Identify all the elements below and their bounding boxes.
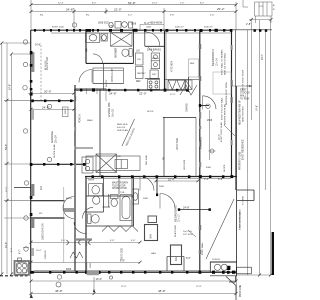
- svg-text:2668: 2668: [143, 198, 149, 200]
- svg-text:FAU: FAU: [175, 256, 178, 261]
- svg-text:6'-8": 6'-8": [110, 240, 115, 242]
- svg-text:WASH: WASH: [152, 57, 159, 60]
- svg-text:16 x 20: 16 x 20: [112, 108, 115, 117]
- svg-text:ENTRY: ENTRY: [106, 79, 108, 87]
- svg-text:MSTR CLST: MSTR CLST: [111, 68, 114, 82]
- svg-text:DRY: DRY: [152, 74, 157, 76]
- svg-text:W.H.: W.H.: [151, 233, 153, 238]
- svg-text:2x6 CLG: 2x6 CLG: [183, 231, 192, 233]
- svg-text:24'-8": 24'-8": [9, 84, 12, 90]
- svg-text:5068 BIPASS: 5068 BIPASS: [147, 49, 161, 52]
- svg-text:8'-2": 8'-2": [200, 3, 205, 5]
- svg-text:22'-0": 22'-0": [114, 7, 122, 11]
- svg-text:12'-0": 12'-0": [6, 186, 8, 192]
- svg-text:2668: 2668: [159, 186, 165, 188]
- svg-text:12 x 13: 12 x 13: [179, 214, 181, 222]
- svg-text:DINING: DINING: [186, 103, 189, 112]
- svg-text:NEW HDR: NEW HDR: [117, 124, 128, 126]
- svg-text:16'-0": 16'-0": [36, 250, 42, 252]
- svg-text:LIVING RM: LIVING RM: [107, 102, 111, 117]
- svg-text:20 x 24: 20 x 24: [55, 134, 58, 143]
- svg-text:EXIST STUCCO WALL: EXIST STUCCO WALL: [221, 97, 224, 120]
- svg-text:PLATFORM: PLATFORM: [174, 225, 177, 237]
- svg-text:3068 SGD: 3068 SGD: [98, 23, 109, 25]
- svg-text:8'-0": 8'-0": [92, 3, 97, 5]
- svg-text:12 x 14: 12 x 14: [217, 58, 219, 66]
- svg-text:SLOPE: SLOPE: [224, 164, 226, 172]
- svg-text:16070: 16070: [65, 108, 67, 115]
- svg-text:22'-0": 22'-0": [121, 286, 127, 288]
- svg-text:WALK: WALK: [87, 119, 94, 122]
- svg-text:BATH: BATH: [66, 197, 72, 200]
- svg-text:EQ: EQ: [86, 15, 89, 17]
- svg-text:PANTRY: PANTRY: [137, 72, 146, 75]
- svg-text:16070 GAR DR: 16070 GAR DR: [42, 223, 45, 240]
- svg-text:9'-0": 9'-0": [61, 240, 66, 242]
- svg-text:12'-4": 12'-4": [58, 3, 64, 5]
- svg-text:NEW CONC WALK: NEW CONC WALK: [239, 209, 242, 228]
- svg-text:KITCHEN: KITCHEN: [171, 61, 174, 72]
- svg-text:SLOPE SLAB: SLOPE SLAB: [53, 144, 56, 158]
- svg-text:54'-8": 54'-8": [128, 1, 136, 5]
- svg-text:12'-8": 12'-8": [196, 286, 202, 288]
- svg-text:PROPERTY LINE: PROPERTY LINE: [240, 151, 242, 170]
- svg-text:HALL: HALL: [151, 252, 157, 255]
- svg-text:7'-0": 7'-0": [180, 3, 185, 5]
- svg-text:24'-8": 24'-8": [183, 205, 190, 209]
- svg-text:STUCCO: STUCCO: [240, 93, 250, 95]
- svg-text:REF: REF: [136, 81, 141, 83]
- svg-text:LINE OF EXIST ROOF: LINE OF EXIST ROOF: [243, 69, 245, 92]
- svg-text:GARAGE: GARAGE: [50, 131, 54, 143]
- svg-text:EQ: EQ: [40, 15, 43, 17]
- svg-text:WALL: WALL: [240, 95, 247, 98]
- svg-text:48'-8": 48'-8": [55, 289, 63, 293]
- svg-text:SGD 8068: SGD 8068: [184, 159, 186, 170]
- svg-text:EXIST WALL: EXIST WALL: [201, 241, 204, 255]
- svg-text:PROP LINE: PROP LINE: [240, 284, 242, 297]
- svg-text:4'-0": 4'-0": [11, 247, 13, 252]
- svg-text:BEDROOM 2: BEDROOM 2: [174, 205, 178, 222]
- svg-text:REMOVE EXIST WDW: REMOVE EXIST WDW: [226, 81, 228, 105]
- svg-text:2668: 2668: [207, 120, 213, 122]
- svg-text:1668: 1668: [146, 27, 152, 29]
- svg-text:24'-8": 24'-8": [109, 92, 117, 96]
- svg-text:NEW ADDITION 496 SF: NEW ADDITION 496 SF: [239, 100, 242, 125]
- svg-text:TILE FLOOR: TILE FLOOR: [112, 185, 126, 187]
- svg-text:PORCH: PORCH: [79, 114, 82, 123]
- svg-text:SHOWER: SHOWER: [116, 47, 118, 58]
- svg-text:REMOVE PER PLAN: REMOVE PER PLAN: [224, 104, 227, 125]
- svg-text:5040 XO: 5040 XO: [204, 27, 213, 29]
- svg-text:24'-8": 24'-8": [42, 106, 50, 110]
- svg-text:16070 SGD: 16070 SGD: [122, 248, 124, 260]
- svg-text:3068 DR: 3068 DR: [45, 250, 47, 259]
- svg-text:16'-0": 16'-0": [96, 277, 103, 281]
- svg-text:PORCH: PORCH: [212, 259, 220, 261]
- svg-text:24'-8": 24'-8": [66, 7, 74, 11]
- svg-text:SHWR O/TUB: SHWR O/TUB: [112, 188, 127, 190]
- svg-text:9'-8": 9'-8": [170, 15, 175, 17]
- svg-text:4'-0": 4'-0": [204, 178, 209, 181]
- svg-text:12'-0": 12'-0": [170, 94, 176, 96]
- svg-text:5'-0" MIN: 5'-0" MIN: [243, 196, 245, 205]
- svg-text:14'-2": 14'-2": [152, 3, 158, 5]
- svg-text:8'-0": 8'-0": [186, 257, 191, 260]
- svg-text:22'-0": 22'-0": [139, 92, 147, 96]
- svg-text:NEW 2x4 STUD WALL: NEW 2x4 STUD WALL: [224, 52, 227, 75]
- svg-text:4'-0": 4'-0": [131, 240, 136, 242]
- svg-text:24'-8": 24'-8": [35, 45, 41, 47]
- svg-text:JST 16OC: JST 16OC: [183, 234, 194, 236]
- svg-text:2068: 2068: [109, 26, 115, 28]
- svg-text:16070 SGD: 16070 SGD: [177, 138, 179, 150]
- svg-text:5068: 5068: [90, 262, 92, 268]
- svg-text:4'-0": 4'-0": [20, 249, 22, 254]
- svg-text:5068: 5068: [66, 269, 72, 271]
- svg-text:BEDROOM 3: BEDROOM 3: [211, 49, 215, 66]
- svg-text:50'-0": 50'-0": [5, 144, 8, 150]
- svg-text:10'-4": 10'-4": [168, 177, 175, 181]
- svg-text:2'-8": 2'-8": [246, 22, 251, 26]
- svg-text:REF: REF: [190, 63, 195, 65]
- svg-text:MSTR: MSTR: [88, 180, 95, 182]
- svg-text:EXIST 4040: EXIST 4040: [52, 27, 65, 29]
- svg-text:4040 XO: 4040 XO: [175, 27, 184, 29]
- svg-text:NEW FOOTING: NEW FOOTING: [243, 106, 245, 122]
- svg-text:29'-2": 29'-2": [217, 7, 225, 11]
- svg-text:6068: 6068: [206, 167, 212, 169]
- svg-text:2668: 2668: [131, 24, 137, 26]
- svg-text:5'-2": 5'-2": [128, 15, 133, 17]
- svg-text:TUB: TUB: [120, 192, 125, 194]
- svg-text:LIN: LIN: [137, 59, 141, 61]
- svg-text:48'-8": 48'-8": [158, 289, 166, 293]
- svg-text:14'-6": 14'-6": [256, 105, 259, 111]
- svg-text:DBL SINK: DBL SINK: [146, 155, 148, 165]
- svg-text:DN: DN: [163, 156, 165, 160]
- svg-text:4'-6": 4'-6": [210, 15, 215, 17]
- svg-text:NOOK: NOOK: [147, 111, 154, 113]
- svg-text:10'-0": 10'-0": [219, 134, 221, 140]
- svg-text:MASTER BATH: MASTER BATH: [112, 182, 129, 185]
- svg-text:EXIST WALL TO REMAIN: EXIST WALL TO REMAIN: [221, 49, 224, 75]
- svg-text:6'-8": 6'-8": [218, 178, 223, 181]
- svg-text:PER PLAN: PER PLAN: [117, 129, 128, 132]
- svg-text:20'-0": 20'-0": [44, 89, 52, 93]
- svg-text:EXIST WALL: EXIST WALL: [200, 136, 203, 149]
- svg-text:LIN: LIN: [136, 51, 140, 53]
- svg-text:WC: WC: [39, 213, 43, 215]
- svg-text:NEW WDW: NEW WDW: [150, 23, 163, 25]
- svg-text:24'-0": 24'-0": [5, 242, 8, 248]
- svg-text:24'-0": 24'-0": [262, 54, 264, 60]
- svg-text:4x10 DF: 4x10 DF: [117, 127, 126, 129]
- svg-text:AT 16 OC: AT 16 OC: [44, 60, 47, 70]
- svg-text:EXIST RESIDENCE: EXIST RESIDENCE: [243, 139, 245, 160]
